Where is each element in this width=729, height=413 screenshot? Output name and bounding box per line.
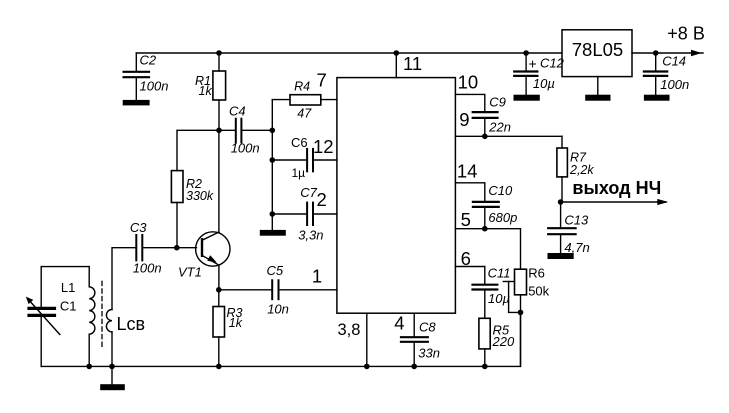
capacitor C11 xyxy=(473,266,511,319)
svg-text:12: 12 xyxy=(313,136,334,157)
pin 1 xyxy=(312,265,322,286)
IC DA1 box xyxy=(337,78,456,314)
svg-text:6: 6 xyxy=(461,248,471,269)
pin 3,8 xyxy=(338,313,367,366)
svg-text:C14: C14 xyxy=(662,54,686,69)
resistor R4 xyxy=(272,80,337,121)
pin 7 xyxy=(317,70,327,91)
resistor R7 xyxy=(557,136,594,202)
ground below 78L05 xyxy=(585,95,610,101)
svg-text:R4: R4 xyxy=(294,80,310,94)
svg-text:78L05: 78L05 xyxy=(572,39,623,60)
svg-text:C3: C3 xyxy=(130,220,147,235)
node top rail / C12 xyxy=(523,50,529,56)
pin 2 xyxy=(317,189,327,210)
ground below C2 xyxy=(123,100,150,106)
svg-text:9: 9 xyxy=(459,109,469,130)
ground below C13 xyxy=(548,253,574,259)
wire bottom ground rail xyxy=(41,312,520,366)
pin 11 xyxy=(396,53,422,78)
resistor R5 xyxy=(479,318,515,366)
svg-text:C13: C13 xyxy=(564,213,589,228)
svg-text:220: 220 xyxy=(492,334,515,349)
svg-text:C6: C6 xyxy=(291,135,308,150)
svg-text:C7: C7 xyxy=(300,185,317,200)
node bus/C6 xyxy=(270,157,276,163)
node emitter/C5/R3 junction xyxy=(216,287,222,293)
svg-text:100n: 100n xyxy=(660,77,689,92)
node R2/base junction xyxy=(174,245,180,251)
svg-text:10µ: 10µ xyxy=(488,291,510,306)
node top rail / R1 xyxy=(216,50,222,56)
svg-text:22n: 22n xyxy=(488,120,511,135)
ground at tank xyxy=(100,366,125,390)
capacitor C1 (variable) with tank loop xyxy=(26,267,89,367)
svg-text:5: 5 xyxy=(461,209,471,230)
svg-text:330k: 330k xyxy=(186,189,214,203)
svg-text:100n: 100n xyxy=(133,261,162,276)
node bus/C7 xyxy=(270,211,276,217)
wire left bus (pins 7/12/2 common) xyxy=(271,100,273,230)
wire top +8V rail xyxy=(136,52,562,54)
pin 14 / capacitor C10 xyxy=(455,161,517,229)
svg-text:10n: 10n xyxy=(267,301,289,316)
svg-text:33n: 33n xyxy=(418,345,440,360)
svg-text:7: 7 xyxy=(317,70,327,91)
resistor R6 (volume, wiper tied to bottom) xyxy=(503,266,549,367)
svg-text:100n: 100n xyxy=(231,141,260,156)
svg-text:C9: C9 xyxy=(489,95,506,110)
svg-text:C4: C4 xyxy=(229,103,246,118)
node output junction xyxy=(558,199,564,205)
svg-text:680p: 680p xyxy=(488,210,517,225)
svg-text:VT1: VT1 xyxy=(178,265,202,280)
svg-text:10µ: 10µ xyxy=(533,76,555,91)
resistor R3 xyxy=(213,290,243,367)
svg-text:L1: L1 xyxy=(61,280,75,295)
svg-text:4,7n: 4,7n xyxy=(564,240,589,255)
svg-text:C8: C8 xyxy=(419,320,436,335)
node top rail / pin 11 xyxy=(394,50,400,56)
svg-text:3,3n: 3,3n xyxy=(298,228,323,243)
ground below C12 xyxy=(514,95,540,101)
regulator 78L05 xyxy=(562,30,656,95)
pin 9 wire xyxy=(455,109,562,136)
svg-text:10: 10 xyxy=(458,72,479,93)
capacitor C12 xyxy=(514,53,564,95)
node R3 / bottom rail xyxy=(216,364,222,370)
capacitor C6 xyxy=(272,135,337,180)
svg-text:C5: C5 xyxy=(267,263,284,278)
capacitor C4 xyxy=(219,103,272,155)
node pin5/C10 xyxy=(482,226,488,232)
node C8 / bottom rail xyxy=(411,364,417,370)
svg-text:C11: C11 xyxy=(488,266,511,281)
svg-text:+: + xyxy=(529,56,537,72)
svg-text:100n: 100n xyxy=(140,79,169,94)
net +8 В with arrow xyxy=(656,24,705,57)
pin 12 xyxy=(313,136,334,157)
resistor R2 xyxy=(171,130,219,247)
svg-text:50k: 50k xyxy=(528,284,549,299)
pin 10 / capacitor C9 xyxy=(455,72,511,137)
svg-text:C1: C1 xyxy=(60,299,77,314)
capacitor C3 xyxy=(112,220,196,275)
node R5 / bottom rail xyxy=(482,364,488,370)
svg-text:C12: C12 xyxy=(540,55,565,70)
node R6 bottom junction xyxy=(518,310,524,316)
svg-text:1µ: 1µ xyxy=(292,166,306,180)
resistor R1 xyxy=(195,53,226,130)
svg-text:C10: C10 xyxy=(488,183,513,198)
inductor L1 xyxy=(89,267,95,367)
transistor VT1 xyxy=(178,130,230,289)
svg-text:C2: C2 xyxy=(140,53,157,68)
svg-text:1k: 1k xyxy=(199,84,213,98)
svg-text:14: 14 xyxy=(457,161,478,182)
coupling coil Lсв xyxy=(106,248,145,367)
pin 4 / capacitor C8 xyxy=(394,313,440,367)
svg-text:выход НЧ: выход НЧ xyxy=(572,178,661,198)
svg-text:R6: R6 xyxy=(528,266,545,281)
svg-text:2,2k: 2,2k xyxy=(569,163,594,177)
svg-text:47: 47 xyxy=(297,106,312,120)
svg-text:2: 2 xyxy=(317,189,327,210)
node pin9/C9 xyxy=(482,134,488,140)
capacitor C2 xyxy=(124,53,169,100)
capacitor C14 xyxy=(644,53,689,95)
svg-text:3,8: 3,8 xyxy=(338,321,361,339)
svg-text:+8 В: +8 В xyxy=(667,24,705,44)
ground below C14 xyxy=(644,95,670,101)
ground below left bus xyxy=(260,230,286,236)
svg-text:11: 11 xyxy=(403,53,422,74)
node L1 / bottom rail xyxy=(86,364,92,370)
core dashed line xyxy=(101,281,103,349)
node bus/C4 xyxy=(270,128,276,134)
svg-text:4: 4 xyxy=(394,313,404,334)
svg-text:1: 1 xyxy=(312,265,322,286)
pin 6 wire xyxy=(455,248,484,284)
net выход НЧ output wire with arrow xyxy=(561,178,669,205)
capacitor C7 xyxy=(272,185,337,243)
node R1/R2/C4/collector junction xyxy=(216,128,222,134)
node pin 3,8 / bottom rail xyxy=(364,364,370,370)
svg-text:Lсв: Lсв xyxy=(117,314,146,334)
svg-text:1k: 1k xyxy=(229,316,243,330)
capacitor C13 xyxy=(548,202,590,255)
node Lсв / bottom rail / ground xyxy=(109,364,115,370)
node 78L05 out / C14 xyxy=(653,50,659,56)
capacitor C5 xyxy=(219,263,337,317)
pin 5 wire xyxy=(455,209,520,269)
